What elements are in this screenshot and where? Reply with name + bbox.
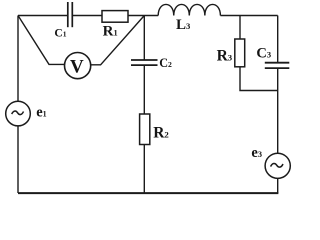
wire junction down to R3 xyxy=(239,16,241,40)
svg-text:R3: R3 xyxy=(217,48,233,65)
svg-text:C2: C2 xyxy=(159,56,172,70)
capacitor C3 xyxy=(265,63,290,68)
wire right rail top segment xyxy=(277,16,279,63)
source e1 xyxy=(6,101,31,126)
wire left rail top segment xyxy=(17,16,19,102)
wire R1 to L3 through node A xyxy=(128,15,158,17)
tilde of e1 xyxy=(12,111,24,115)
svg-text:R1: R1 xyxy=(103,23,118,39)
source e3 xyxy=(265,153,290,178)
wire L3 to top-right corner through R3 junction xyxy=(220,15,277,17)
wire top rail: corner to C1 xyxy=(18,15,68,17)
svg-text:L3: L3 xyxy=(176,17,190,33)
svg-text:V: V xyxy=(70,57,84,78)
wire diagonal from top-left corner to voltmeter xyxy=(18,16,65,65)
wire C2 to R2 xyxy=(143,65,145,114)
svg-text:e3: e3 xyxy=(251,145,262,161)
bottom rail xyxy=(18,192,278,194)
wire R2 to bottom rail xyxy=(143,145,145,194)
svg-text:C3: C3 xyxy=(256,46,271,62)
svg-text:e1: e1 xyxy=(36,105,46,121)
wire right rail bottom segment xyxy=(277,178,279,193)
wire right rail middle segment xyxy=(277,68,279,153)
voltmeter V xyxy=(65,53,91,79)
svg-text:R2: R2 xyxy=(153,124,169,141)
wire node A down to C2 xyxy=(143,16,145,60)
tilde of e3 xyxy=(271,163,283,167)
resistor R3 xyxy=(235,39,245,67)
wire left rail bottom segment xyxy=(17,126,19,193)
wire C1 to R1 xyxy=(72,15,102,17)
wire voltmeter to node A xyxy=(91,16,145,65)
svg-text:C1: C1 xyxy=(54,27,66,40)
capacitor C2 xyxy=(131,60,158,65)
inductor L3 xyxy=(158,4,220,15)
wire R3 bottom to right branch xyxy=(240,67,278,91)
resistor R2 xyxy=(140,114,150,145)
capacitor C1 xyxy=(68,2,73,27)
resistor R1 xyxy=(102,11,128,23)
